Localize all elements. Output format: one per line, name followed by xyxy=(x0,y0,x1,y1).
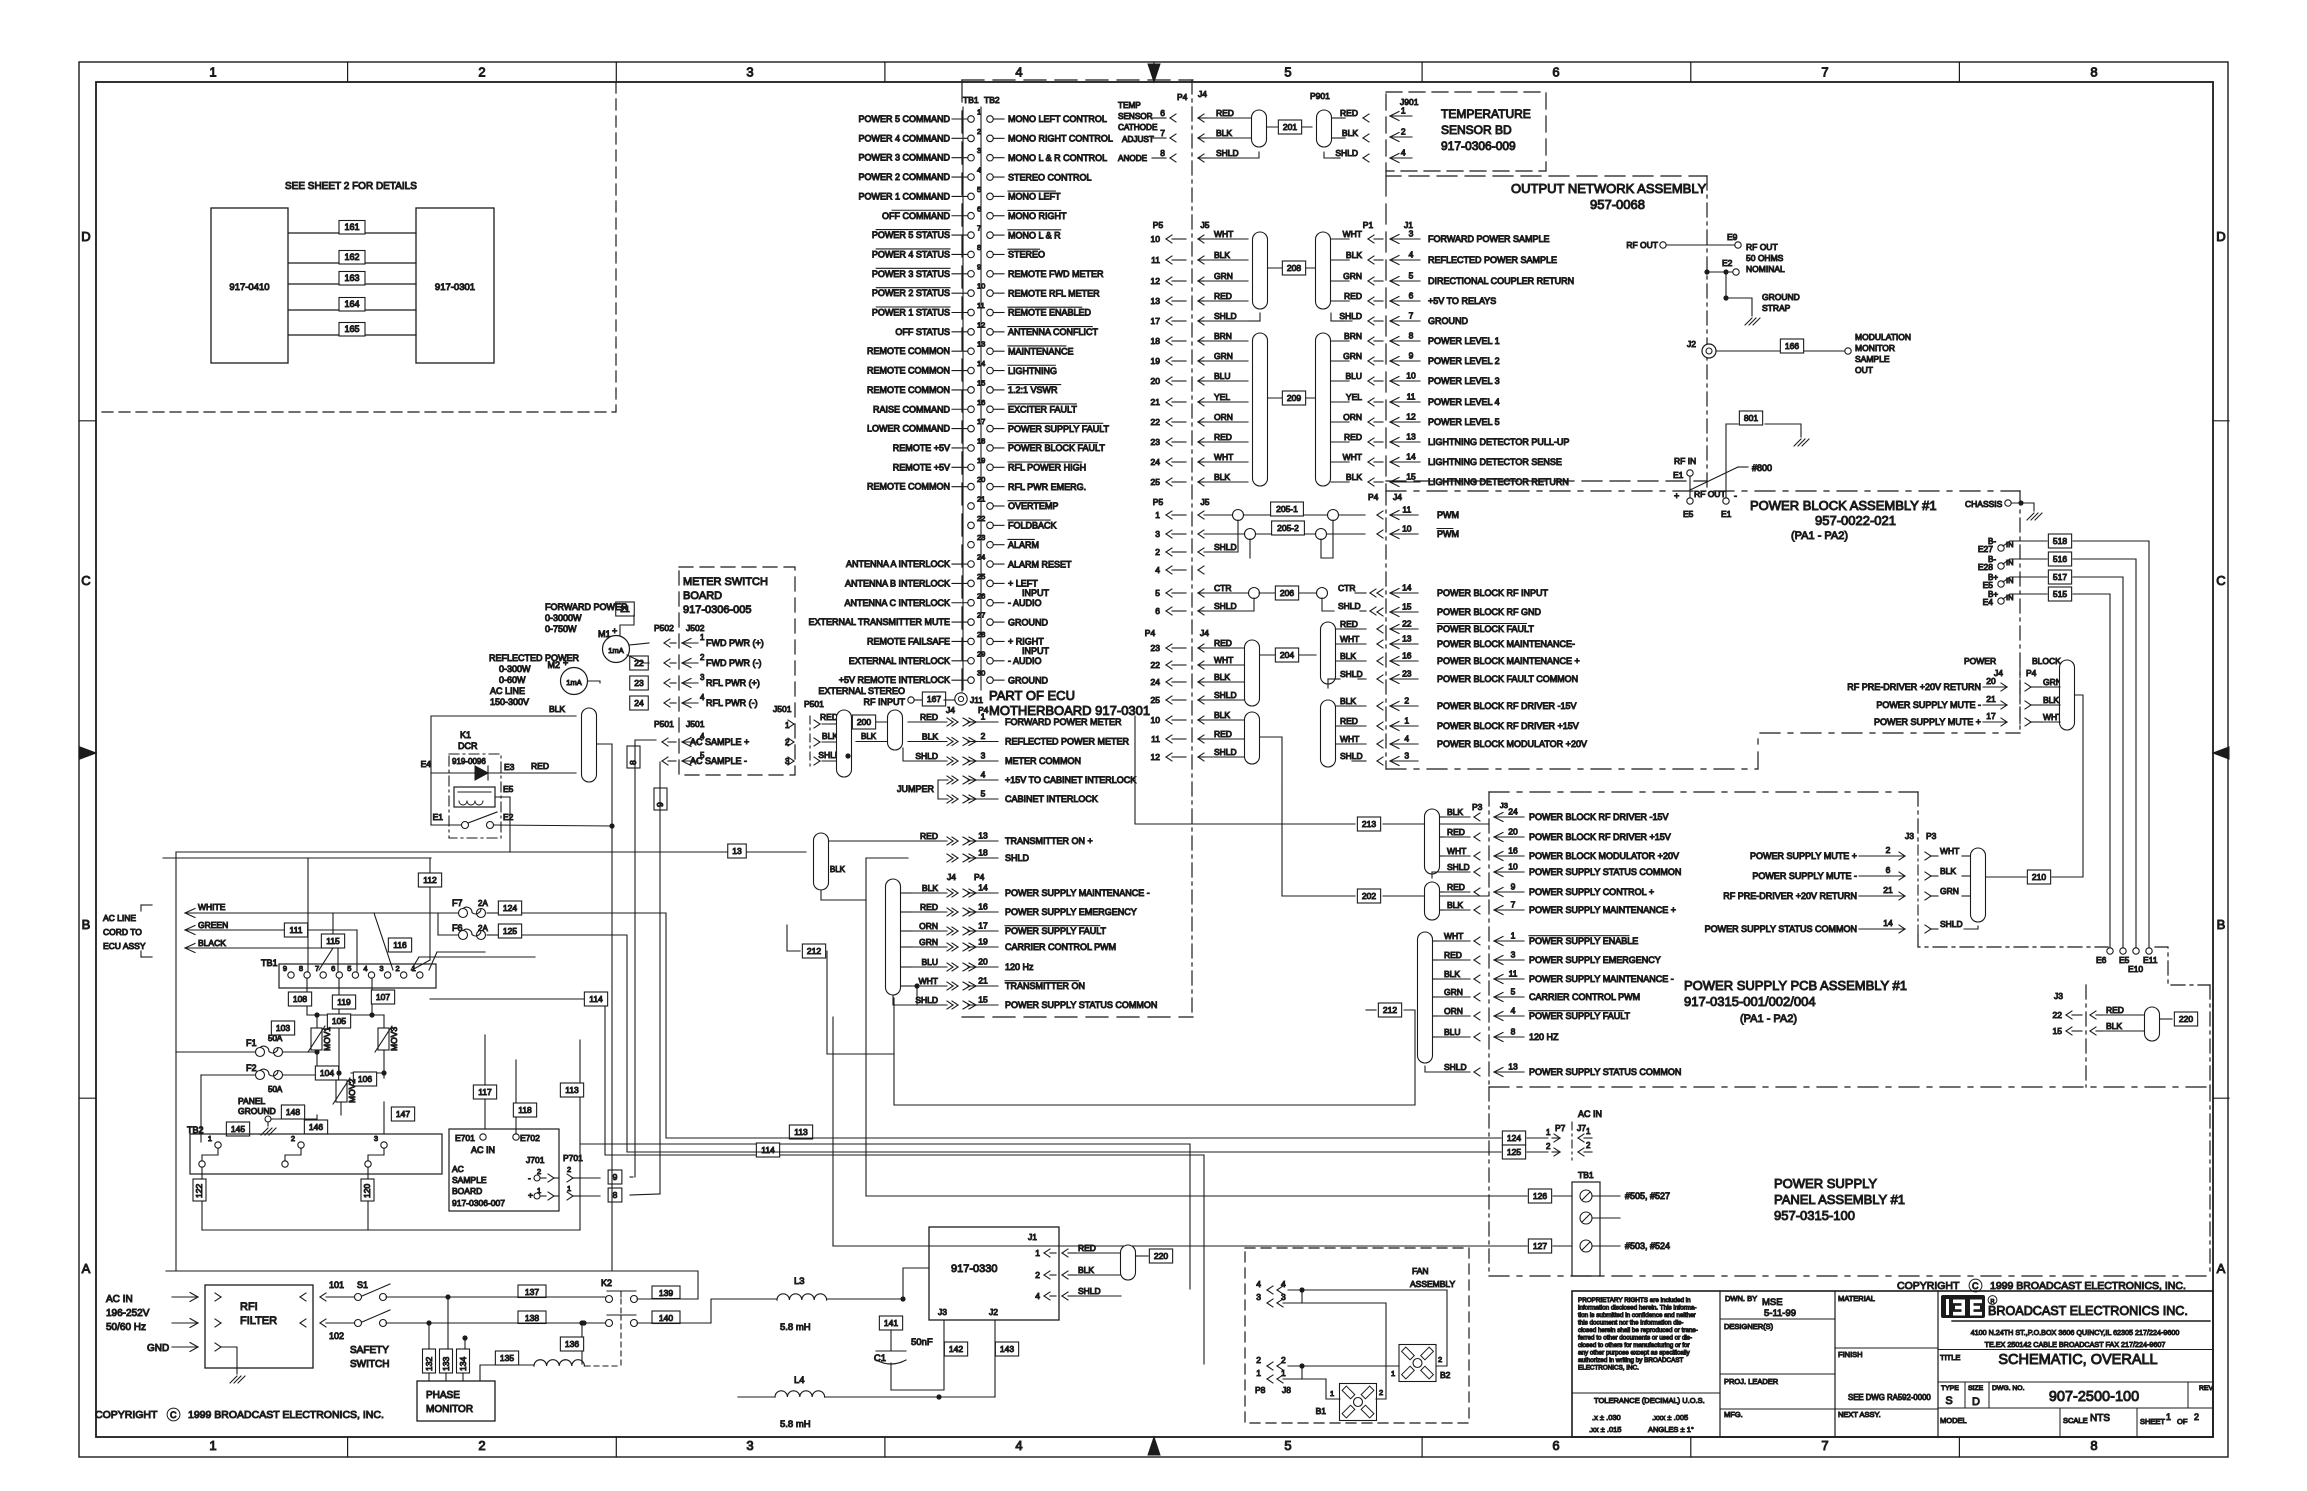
svg-text:FORWARD POWER SAMPLE: FORWARD POWER SAMPLE xyxy=(1428,234,1550,244)
svg-text:3: 3 xyxy=(1256,1292,1261,1302)
svg-text:24: 24 xyxy=(1151,457,1161,467)
svg-text:7: 7 xyxy=(315,964,319,973)
svg-text:GRN: GRN xyxy=(1214,351,1233,361)
svg-text:20: 20 xyxy=(978,957,988,967)
svg-text:1: 1 xyxy=(1391,1369,1395,1378)
svg-text:106: 106 xyxy=(358,1074,372,1084)
svg-text:POWER SUPPLY PCB ASSEMBLY #1: POWER SUPPLY PCB ASSEMBLY #1 xyxy=(1684,978,1907,993)
svg-text:2: 2 xyxy=(700,653,705,662)
svg-text:RED: RED xyxy=(1216,108,1234,118)
svg-text:E9: E9 xyxy=(1727,232,1738,242)
center arrow bottom xyxy=(1148,1437,1160,1455)
svg-text:10: 10 xyxy=(977,282,985,291)
svg-text:1: 1 xyxy=(1586,1127,1591,1136)
svg-text:10: 10 xyxy=(1508,862,1518,872)
svg-text:RF INPUT: RF INPUT xyxy=(864,697,906,707)
svg-text:RED: RED xyxy=(1340,716,1358,726)
diode xyxy=(431,772,475,774)
svg-text:WHT: WHT xyxy=(919,976,938,986)
svg-text:POWER 4 STATUS: POWER 4 STATUS xyxy=(872,249,950,259)
material box xyxy=(1835,1347,1938,1349)
919-0096 dash box xyxy=(449,754,501,838)
svg-text:0-60W: 0-60W xyxy=(499,675,526,685)
svg-text:4: 4 xyxy=(1511,1006,1516,1016)
svg-text:closed to others for manufactu: closed to others for manufacturing or fo… xyxy=(1578,1342,1690,1349)
TB pin row 30 xyxy=(968,677,975,684)
svg-text:BRN: BRN xyxy=(1344,331,1362,341)
cable oval P1 lower xyxy=(1316,333,1331,486)
svg-text:3: 3 xyxy=(977,146,981,155)
TB pin row 5 xyxy=(968,193,975,200)
svg-text:9: 9 xyxy=(1409,351,1414,361)
svg-text:12: 12 xyxy=(977,320,985,329)
svg-text:SHLD: SHLD xyxy=(1214,747,1237,757)
svg-text:WHITE: WHITE xyxy=(198,902,226,912)
svg-text:OUTPUT NETWORK ASSEMBLY: OUTPUT NETWORK ASSEMBLY xyxy=(1511,181,1707,196)
140 box xyxy=(637,1322,711,1324)
svg-text:P501: P501 xyxy=(654,719,674,729)
svg-text:1: 1 xyxy=(1256,1368,1261,1378)
svg-text:J4: J4 xyxy=(1200,628,1209,638)
wire 200 box xyxy=(852,715,875,729)
svg-text:GRN: GRN xyxy=(1940,886,1959,896)
svg-text:3: 3 xyxy=(1511,950,1516,960)
MOV bus top xyxy=(307,1014,384,1016)
TB pin row 17 xyxy=(968,425,975,432)
svg-text:25: 25 xyxy=(1151,477,1161,487)
svg-text:118: 118 xyxy=(518,1105,532,1115)
svg-text:GRN: GRN xyxy=(1343,351,1362,361)
svg-text:POWER SUPPLY STATUS COMMON: POWER SUPPLY STATUS COMMON xyxy=(1529,867,1681,877)
svg-text:165: 165 xyxy=(344,324,359,334)
AC sample board xyxy=(449,1129,559,1211)
power block J4 pin 14 xyxy=(1377,589,1383,593)
center arrow right xyxy=(2213,747,2229,759)
svg-text:MOTHERBOARD 917-0301: MOTHERBOARD 917-0301 xyxy=(989,703,1150,718)
svg-text:J2: J2 xyxy=(989,1307,998,1317)
TB pin row 12 xyxy=(968,329,975,336)
svg-text:114: 114 xyxy=(761,1145,775,1155)
transmitter on rows xyxy=(952,837,958,841)
svg-text:50nF: 50nF xyxy=(911,1337,933,1348)
svg-text:8: 8 xyxy=(2090,65,2097,80)
svg-text:10: 10 xyxy=(1402,524,1412,534)
svg-text:METER COMMON: METER COMMON xyxy=(1005,756,1081,766)
svg-text:P501: P501 xyxy=(804,699,824,709)
svg-text:22: 22 xyxy=(977,514,985,523)
svg-text:135: 135 xyxy=(500,1353,514,1363)
designers box xyxy=(1720,1373,1835,1375)
svg-text:MONO RIGHT: MONO RIGHT xyxy=(1008,211,1067,221)
wire 208 box xyxy=(1268,267,1316,269)
TB pin row 14 xyxy=(968,367,975,374)
svg-text:8: 8 xyxy=(1409,331,1414,341)
svg-text:146: 146 xyxy=(309,1122,323,1132)
svg-text:GRN: GRN xyxy=(1343,271,1362,281)
svg-text:P1: P1 xyxy=(1363,220,1374,230)
svg-text:E11: E11 xyxy=(2143,955,2158,965)
svg-text:518: 518 xyxy=(2053,536,2067,546)
svg-text:F2: F2 xyxy=(246,1063,257,1073)
svg-text:POWER SUPPLY ENABLE: POWER SUPPLY ENABLE xyxy=(1529,936,1638,946)
svg-text:7: 7 xyxy=(1821,1438,1828,1453)
svg-text:MOV1: MOV1 xyxy=(322,1027,332,1051)
svg-text:REMOTE +5V: REMOTE +5V xyxy=(893,462,950,472)
svg-text:12: 12 xyxy=(1406,412,1416,422)
svg-text:POWER 5 COMMAND: POWER 5 COMMAND xyxy=(858,114,950,124)
svg-text:ORN: ORN xyxy=(1444,1006,1463,1016)
svg-text:RED: RED xyxy=(1340,619,1358,629)
svg-text:14: 14 xyxy=(1883,918,1893,928)
svg-text:TRANSMITTER ON: TRANSMITTER ON xyxy=(1005,981,1085,991)
svg-text:PWM: PWM xyxy=(1437,529,1459,539)
svg-text:S: S xyxy=(1945,1395,1952,1407)
svg-text:134: 134 xyxy=(458,1357,468,1371)
svg-text:POWER SUPPLY STATUS COMMON: POWER SUPPLY STATUS COMMON xyxy=(1005,1000,1157,1010)
svg-text:TRANSMITTER ON +: TRANSMITTER ON + xyxy=(1005,836,1093,846)
svg-text:19: 19 xyxy=(978,937,988,947)
TB pin row 26 xyxy=(968,599,975,606)
svg-text:18: 18 xyxy=(977,436,985,445)
svg-text:POWER SUPPLY STATUS COMMON: POWER SUPPLY STATUS COMMON xyxy=(1705,924,1857,934)
svg-text:104: 104 xyxy=(320,1068,334,1078)
svg-text:OUT: OUT xyxy=(1855,365,1873,375)
svg-text:#800: #800 xyxy=(1752,463,1772,473)
cable oval P1 upper xyxy=(1316,232,1331,309)
svg-text:BROADCAST ELECTRONICS INC.: BROADCAST ELECTRONICS INC. xyxy=(1988,1304,2188,1318)
svg-text:137: 137 xyxy=(525,1287,539,1297)
svg-text:15: 15 xyxy=(977,378,985,387)
svg-text:917-0301: 917-0301 xyxy=(435,282,475,293)
svg-text:SIZE: SIZE xyxy=(1968,1385,1984,1392)
svg-text:1: 1 xyxy=(700,633,705,642)
svg-text:.x ± .030: .x ± .030 xyxy=(1592,1413,1621,1422)
svg-text:+: + xyxy=(528,1190,533,1200)
108 box xyxy=(288,992,311,1006)
svg-text:1: 1 xyxy=(981,712,986,722)
svg-text:9: 9 xyxy=(977,262,981,271)
svg-text:MONO LEFT: MONO LEFT xyxy=(1008,192,1061,202)
svg-text:E702: E702 xyxy=(520,1133,540,1143)
svg-text:SHLD: SHLD xyxy=(1216,148,1239,158)
relay coil xyxy=(454,787,495,807)
svg-text:C: C xyxy=(170,1410,177,1420)
svg-text:#503, #524: #503, #524 xyxy=(1625,1241,1670,1251)
svg-text:ANTENNA C INTERLOCK: ANTENNA C INTERLOCK xyxy=(844,598,950,608)
svg-text:P3: P3 xyxy=(1926,831,1937,841)
svg-text:27: 27 xyxy=(977,611,985,620)
svg-text:8: 8 xyxy=(2090,1438,2097,1453)
svg-text:LIGHTNING DETECTOR RETURN: LIGHTNING DETECTOR RETURN xyxy=(1428,477,1569,487)
svg-text:161: 161 xyxy=(344,222,359,232)
svg-text:GROUND: GROUND xyxy=(1762,292,1800,302)
svg-text:POWER 1 STATUS: POWER 1 STATUS xyxy=(872,308,950,318)
132 133 134 boxes xyxy=(423,1349,436,1373)
svg-text:133: 133 xyxy=(441,1357,451,1371)
TB1 screw #503, #524 xyxy=(1580,1240,1592,1252)
ac in arrows xyxy=(172,1296,198,1298)
svg-text:ferred to other documents or u: ferred to other documents or used or dis… xyxy=(1578,1335,1692,1342)
svg-text:STEREO CONTROL: STEREO CONTROL xyxy=(1008,172,1092,182)
svg-text:K2: K2 xyxy=(601,1278,612,1288)
svg-text:COPYRIGHT: COPYRIGHT xyxy=(1897,1280,1960,1292)
svg-text:147: 147 xyxy=(396,1109,410,1119)
143 box xyxy=(995,1342,1018,1356)
svg-text:PANEL: PANEL xyxy=(238,1096,266,1106)
svg-text:A: A xyxy=(82,1261,91,1276)
svg-text:24: 24 xyxy=(977,553,985,562)
svg-text:22: 22 xyxy=(2053,1010,2063,1020)
svg-text:15: 15 xyxy=(978,995,988,1005)
svg-text:5: 5 xyxy=(1409,271,1414,281)
svg-text:CABINET INTERLOCK: CABINET INTERLOCK xyxy=(1005,794,1098,804)
svg-text:POWER BLOCK MODULATOR +20V: POWER BLOCK MODULATOR +20V xyxy=(1529,851,1679,861)
svg-text:POWER BLOCK RF DRIVER +15V: POWER BLOCK RF DRIVER +15V xyxy=(1529,832,1671,842)
oval P3 upper xyxy=(1425,809,1440,874)
svg-text:J5: J5 xyxy=(1201,220,1210,230)
svg-text:4: 4 xyxy=(700,693,705,702)
svg-text:K1: K1 xyxy=(460,730,471,740)
svg-text:5: 5 xyxy=(1284,65,1291,80)
svg-text:125: 125 xyxy=(1507,1147,1521,1157)
block 917-0301 xyxy=(416,208,494,363)
svg-text:103: 103 xyxy=(276,1023,290,1033)
MOV3 varistor xyxy=(378,1028,389,1050)
svg-text:POWER SUPPLY MUTE -: POWER SUPPLY MUTE - xyxy=(1876,700,1981,710)
svg-text:2: 2 xyxy=(396,964,400,973)
title row xyxy=(1938,1349,2213,1351)
svg-text:2: 2 xyxy=(1035,1270,1040,1280)
svg-text:D: D xyxy=(2216,229,2225,244)
svg-text:23: 23 xyxy=(1402,669,1412,679)
svg-text:A: A xyxy=(2217,1261,2226,1276)
svg-text:DIRECTIONAL COUPLER RETURN: DIRECTIONAL COUPLER RETURN xyxy=(1428,276,1574,286)
svg-text:17: 17 xyxy=(977,417,985,426)
svg-text:POWER SUPPLY MAINTENANCE -: POWER SUPPLY MAINTENANCE - xyxy=(1005,888,1150,898)
svg-text:BLU: BLU xyxy=(1444,1027,1461,1037)
svg-text:917-0306-007: 917-0306-007 xyxy=(452,1198,505,1208)
svg-text:F7: F7 xyxy=(452,898,463,908)
TB pin row 28 xyxy=(968,638,975,645)
temp cable oval right xyxy=(1317,110,1332,147)
svg-text:213: 213 xyxy=(1362,819,1376,829)
wire 161 xyxy=(289,232,416,234)
svg-text:SENSOR BD: SENSOR BD xyxy=(1441,123,1512,137)
svg-text:17: 17 xyxy=(1986,711,1996,721)
svg-text:14: 14 xyxy=(1402,583,1412,593)
svg-text:220: 220 xyxy=(2179,1014,2193,1024)
svg-text:3: 3 xyxy=(1281,1292,1286,1302)
svg-text:REV: REV xyxy=(2199,1385,2213,1392)
svg-text:801: 801 xyxy=(1744,413,1758,423)
svg-text:AC IN: AC IN xyxy=(106,1294,133,1305)
svg-text:2: 2 xyxy=(1886,845,1891,855)
svg-text:196-252V: 196-252V xyxy=(106,1308,150,1319)
svg-text:FINISH: FINISH xyxy=(1838,1350,1863,1359)
svg-text:6: 6 xyxy=(1552,65,1559,80)
ECU motherboard dashed outline 917-0301 xyxy=(962,79,1193,81)
svg-text:8: 8 xyxy=(299,964,303,973)
svg-text:12: 12 xyxy=(1151,752,1161,762)
meter connector rows xyxy=(952,718,958,722)
center arrow top xyxy=(1148,64,1160,82)
TB pin row 13 xyxy=(968,348,975,355)
svg-text:10: 10 xyxy=(1151,715,1161,725)
svg-text:11: 11 xyxy=(1151,255,1160,265)
svg-text:13: 13 xyxy=(1151,296,1161,306)
TB pin row 2 xyxy=(968,135,975,142)
svg-text:RED: RED xyxy=(1078,1243,1096,1253)
svg-text:RAISE COMMAND: RAISE COMMAND xyxy=(873,404,951,414)
svg-text:P5: P5 xyxy=(1153,497,1164,507)
svg-text:4: 4 xyxy=(363,964,367,973)
svg-text:B: B xyxy=(82,917,91,932)
wire 213 202 runs xyxy=(1260,737,1282,792)
svg-text:SHLD: SHLD xyxy=(1335,148,1358,158)
svg-text:ANTENNA CONFLICT: ANTENNA CONFLICT xyxy=(1008,327,1099,337)
svg-text:BLACK: BLACK xyxy=(198,938,226,948)
svg-text:21: 21 xyxy=(977,495,985,504)
svg-text:22: 22 xyxy=(1151,660,1161,670)
svg-text:208: 208 xyxy=(1287,263,1301,273)
svg-text:19: 19 xyxy=(1151,356,1161,366)
fan wiring row1 xyxy=(1283,1378,1326,1380)
svg-text:145: 145 xyxy=(231,1124,245,1134)
svg-text:POWER 5 STATUS: POWER 5 STATUS xyxy=(872,230,950,240)
svg-text:PROPRIETARY RIGHTS are include: PROPRIETARY RIGHTS are included in xyxy=(1578,1297,1691,1304)
svg-text:3: 3 xyxy=(700,673,705,682)
oval ps enable bundle xyxy=(1418,932,1433,1063)
TB pin row 15 xyxy=(968,387,975,394)
svg-text:-: - xyxy=(528,1173,531,1183)
8 box wire xyxy=(580,1195,600,1197)
svg-text:957-0315-100: 957-0315-100 xyxy=(1774,1208,1855,1223)
svg-text:RFL POWER HIGH: RFL POWER HIGH xyxy=(1008,463,1086,473)
svg-text:1: 1 xyxy=(977,108,981,117)
svg-text:CTR: CTR xyxy=(1338,583,1355,593)
svg-text:E5: E5 xyxy=(1683,509,1694,519)
J502 pin 2 FWD PWR (-) xyxy=(664,659,670,663)
svg-text:RF OUT: RF OUT xyxy=(1746,242,1778,252)
svg-text:5: 5 xyxy=(1155,588,1160,598)
svg-text:POWER BLOCK FAULT: POWER BLOCK FAULT xyxy=(1008,443,1105,453)
104 box xyxy=(315,1066,338,1080)
svg-text:0-300W: 0-300W xyxy=(499,664,531,674)
svg-text:16: 16 xyxy=(1402,651,1412,661)
106 box xyxy=(353,1072,376,1086)
svg-text:DCR: DCR xyxy=(458,741,478,751)
fan wiring row3 xyxy=(1283,1302,1386,1304)
svg-text:127: 127 xyxy=(1533,1241,1547,1251)
svg-text:16: 16 xyxy=(978,902,988,912)
svg-text:8: 8 xyxy=(613,1190,618,1200)
svg-text:163: 163 xyxy=(344,273,359,283)
svg-text:E27: E27 xyxy=(1978,544,1993,554)
svg-text:MONITOR: MONITOR xyxy=(426,1404,473,1415)
svg-text:YEL: YEL xyxy=(1214,392,1230,402)
svg-text:BLU: BLU xyxy=(1345,371,1362,381)
TB pin row 11 xyxy=(968,309,975,316)
svg-text:RF IN: RF IN xyxy=(1674,456,1696,466)
svg-text:POWER 2 COMMAND: POWER 2 COMMAND xyxy=(858,172,950,182)
svg-text:J2: J2 xyxy=(1687,339,1696,349)
TB pin row 27 xyxy=(968,619,975,626)
svg-text:POWER SUPPLY: POWER SUPPLY xyxy=(1774,1176,1877,1191)
svg-text:J4: J4 xyxy=(946,705,955,715)
TB pin row 29 xyxy=(968,658,975,665)
svg-text:1.2:1 VSWR: 1.2:1 VSWR xyxy=(1008,385,1058,395)
wire 209 box xyxy=(1268,397,1316,399)
J502 pin 4 RFL PWR (-) xyxy=(664,699,670,703)
svg-text:21: 21 xyxy=(1151,397,1161,407)
svg-text:3: 3 xyxy=(746,1438,753,1453)
svg-text:115: 115 xyxy=(326,936,340,946)
svg-text:POWER BLOCK ASSEMBLY #1: POWER BLOCK ASSEMBLY #1 xyxy=(1750,498,1937,513)
svg-text:E2: E2 xyxy=(1722,258,1733,268)
svg-text:202: 202 xyxy=(1362,891,1376,901)
MOV2 varistor xyxy=(336,1080,347,1102)
wires 206 ctr to power block xyxy=(1383,592,1389,594)
svg-text:MATERIAL: MATERIAL xyxy=(1838,1294,1875,1303)
svg-text:16: 16 xyxy=(977,398,985,407)
svg-text:9: 9 xyxy=(283,964,287,973)
svg-text:11: 11 xyxy=(1402,505,1411,515)
svg-text:ANTENNA A INTERLOCK: ANTENNA A INTERLOCK xyxy=(846,559,950,569)
svg-text:WHT: WHT xyxy=(1214,452,1233,462)
svg-text:957-0068: 957-0068 xyxy=(1590,197,1645,212)
svg-text:21: 21 xyxy=(978,976,988,986)
svg-text:SENSOR: SENSOR xyxy=(1118,112,1153,121)
svg-text:P5: P5 xyxy=(1153,220,1164,230)
svg-text:101: 101 xyxy=(329,1280,344,1290)
svg-text:POWER SUPPLY MAINTENANCE +: POWER SUPPLY MAINTENANCE + xyxy=(1529,905,1676,915)
svg-text:POWER 2 STATUS: POWER 2 STATUS xyxy=(872,288,950,298)
svg-text:0-750W: 0-750W xyxy=(545,624,577,634)
svg-text:1: 1 xyxy=(1546,1128,1551,1137)
svg-text:MONITOR: MONITOR xyxy=(1855,343,1895,353)
svg-text:2: 2 xyxy=(291,1134,295,1143)
svg-text:MAINTENANCE: MAINTENANCE xyxy=(1008,346,1074,356)
svg-text:917-0306-009: 917-0306-009 xyxy=(1441,139,1516,153)
svg-text:1999 BROADCAST ELECTRONICS, IN: 1999 BROADCAST ELECTRONICS, INC. xyxy=(188,1409,384,1421)
svg-text:closed herein shall be reprodu: closed herein shall be reproduced or tra… xyxy=(1578,1327,1698,1334)
svg-text:50 OHMS: 50 OHMS xyxy=(1746,253,1784,263)
svg-text:BLK: BLK xyxy=(1340,696,1356,706)
svg-text:50A: 50A xyxy=(268,1034,283,1043)
type size dwg row xyxy=(1938,1381,2213,1383)
svg-text:POWER SUPPLY MAINTENANCE -: POWER SUPPLY MAINTENANCE - xyxy=(1529,974,1674,984)
svg-text:4100 N.24TH ST.,P.O.BOX 3606 Q: 4100 N.24TH ST.,P.O.BOX 3606 QUINCY,IL 6… xyxy=(1971,1328,2180,1337)
svg-text:RFL PWR EMERG.: RFL PWR EMERG. xyxy=(1008,482,1086,492)
oval power block mid upper xyxy=(1321,622,1336,684)
sheet-2 dashed boundary xyxy=(96,82,616,412)
svg-text:3: 3 xyxy=(1404,751,1409,761)
ps pcb to panel dash link xyxy=(2085,985,2087,1087)
svg-text:+: + xyxy=(1674,491,1679,501)
svg-text:REMOTE RFL METER: REMOTE RFL METER xyxy=(1008,288,1100,298)
svg-text:113: 113 xyxy=(565,1085,579,1095)
svg-text:OFF STATUS: OFF STATUS xyxy=(895,327,950,337)
svg-text:J4: J4 xyxy=(947,872,956,882)
svg-text:13: 13 xyxy=(1406,432,1416,442)
svg-text:POWER SUPPLY FAULT: POWER SUPPLY FAULT xyxy=(1005,926,1107,936)
svg-text:1: 1 xyxy=(1404,716,1409,726)
svg-text:AC LINE: AC LINE xyxy=(490,686,525,696)
svg-text:11: 11 xyxy=(1151,734,1160,744)
svg-text:+15V TO CABINET INTERLOCK: +15V TO CABINET INTERLOCK xyxy=(1005,775,1136,785)
svg-text:ANGLES ± 1°: ANGLES ± 1° xyxy=(1648,1425,1694,1434)
svg-text:MODEL: MODEL xyxy=(1940,1416,1967,1425)
